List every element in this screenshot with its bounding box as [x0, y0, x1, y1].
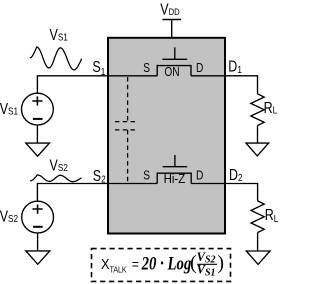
pin D of HI-Z switch: [196, 169, 203, 182]
VDD supply bar: [163, 19, 182, 21]
pin S of ON switch: [143, 62, 150, 75]
sine wave icon VS1: [30, 47, 82, 70]
source VS2 circle: [22, 201, 54, 233]
VDD label: [160, 0, 179, 18]
resistor RL2: [251, 201, 264, 233]
source VS1 circle: [22, 93, 54, 125]
transistor ON (channel bump): [157, 66, 191, 76]
formula fraction bar: [197, 263, 217, 265]
sine wave VS1 label: [50, 26, 68, 44]
label ON: [164, 66, 179, 79]
formula 20 Log term: [141, 253, 192, 274]
switch body U1: [108, 38, 225, 234]
svg-text:D: D: [196, 169, 203, 182]
crosstalk wave VS2 label: [50, 156, 68, 174]
wire VS1 to ground: [36, 125, 38, 143]
svg-text:S: S: [143, 169, 150, 182]
wire RL1 to ground: [257, 126, 259, 144]
svg-text:Hi-Z: Hi-Z: [164, 172, 186, 187]
formula fraction numerator VS2: [197, 250, 216, 266]
svg-text:S: S: [143, 62, 150, 75]
svg-text:): ): [217, 252, 224, 274]
wire VS2 to ground: [37, 233, 39, 251]
parasitic capacitance bottom lead: [127, 130, 129, 184]
formula fraction denominator VS1: [197, 263, 216, 279]
ground under RL1: [246, 143, 269, 156]
resistor RL2 value label: [265, 205, 279, 224]
ground under RL2: [246, 251, 270, 264]
svg-text:D: D: [196, 62, 203, 75]
wire D1 net: [191, 76, 258, 94]
plus sign VS1: [32, 96, 42, 105]
transistor HI-Z (channel bump): [157, 173, 191, 183]
source VS1 label: [0, 100, 18, 118]
svg-text:20 · Log: 20 · Log: [141, 253, 192, 274]
formula box (dashed): [92, 249, 231, 282]
wire S2 net: [37, 184, 157, 201]
minus sign VS2: [33, 226, 43, 228]
ground under VS2: [26, 251, 50, 264]
transistor ON gate lead: [174, 47, 176, 59]
wire D2 net: [191, 184, 257, 201]
parasitic capacitance (dashed) top lead: [127, 77, 129, 122]
node D1 label: [228, 57, 242, 75]
svg-text:=: =: [132, 256, 139, 272]
wire RL2 to ground: [257, 233, 259, 252]
svg-text:ON: ON: [164, 66, 179, 79]
node D2 label: [229, 166, 243, 184]
transistor HI-Z gate lead: [174, 155, 176, 167]
pin S of HI-Z switch: [143, 169, 150, 182]
transistor ON gate bar: [162, 58, 187, 60]
source VS2 label: [0, 207, 18, 225]
capacitor bottom plate: [115, 129, 138, 131]
wire VDD lead: [171, 20, 173, 38]
wire S1 net: [37, 76, 157, 93]
crosstalk wave icon VS2: [30, 175, 81, 182]
node S1 label: [92, 58, 105, 77]
plus sign VS2: [33, 205, 43, 214]
resistor RL1 value label: [264, 99, 278, 117]
ground under VS1: [26, 143, 50, 156]
resistor RL1: [251, 94, 264, 126]
node S2 label: [93, 166, 106, 184]
formula close paren: [217, 252, 224, 274]
formula equals sign: [132, 256, 139, 272]
formula open paren: [190, 252, 197, 274]
minus sign VS1: [33, 118, 43, 120]
capacitor top plate: [115, 121, 138, 123]
transistor HI-Z gate bar: [163, 166, 188, 168]
pin D of ON switch: [196, 62, 203, 75]
label Hi-Z: [164, 172, 186, 187]
formula XTALK label: [101, 256, 127, 274]
